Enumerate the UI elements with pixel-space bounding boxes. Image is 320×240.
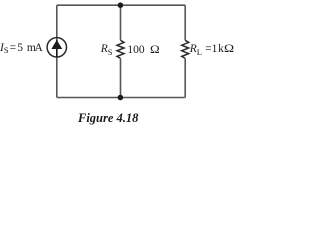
resistor RL zigzag xyxy=(182,40,189,58)
current source IS arrow head xyxy=(51,40,62,49)
wire right branch lower xyxy=(184,58,186,97)
label IS = 5 mA xyxy=(0,43,43,55)
wire bottom rail xyxy=(57,97,185,99)
label RL = 1 kohm xyxy=(190,44,233,56)
wire top rail xyxy=(57,4,185,6)
current source IS circle xyxy=(47,38,66,57)
caption Figure 4.18 xyxy=(78,112,138,125)
wire left branch xyxy=(56,5,58,97)
resistor RS zigzag xyxy=(117,40,124,58)
node junction dot top xyxy=(118,2,124,8)
wire middle branch lower xyxy=(120,58,122,97)
label 100 ohm xyxy=(127,45,158,57)
wire middle branch upper xyxy=(120,5,122,40)
wire right branch upper xyxy=(184,5,186,40)
node junction dot bottom xyxy=(118,95,124,101)
label RS xyxy=(101,44,113,56)
